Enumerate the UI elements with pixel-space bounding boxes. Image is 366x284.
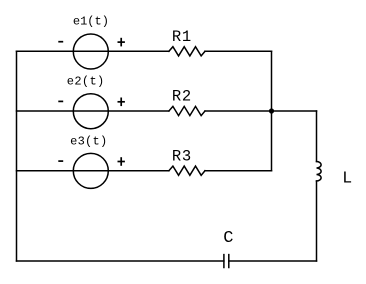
svg-text:e3(t): e3(t) xyxy=(70,134,107,148)
wire right inner vertical xyxy=(271,51,273,170)
label minus e1 xyxy=(58,41,63,43)
capacitor C plate left xyxy=(223,255,225,268)
wire row 2 left xyxy=(17,110,169,112)
wire row 2 right xyxy=(205,110,317,112)
capacitor C plate right xyxy=(228,255,230,268)
resistor R1 zigzag xyxy=(169,47,205,56)
voltage source e1 circle xyxy=(73,34,108,69)
resistor R2 zigzag xyxy=(169,106,205,115)
svg-text:C: C xyxy=(223,229,233,248)
svg-text:R3: R3 xyxy=(172,147,191,165)
wire far right vertical upper xyxy=(316,111,318,162)
wire bottom right segment xyxy=(229,260,317,262)
svg-text:R1: R1 xyxy=(172,28,191,46)
label plus e1 xyxy=(118,41,125,43)
wire row 1 left xyxy=(17,50,169,52)
svg-text:L: L xyxy=(342,168,352,187)
wire bottom left segment xyxy=(17,260,224,262)
label minus e3 xyxy=(58,160,63,162)
svg-text:e2(t): e2(t) xyxy=(67,74,104,88)
inductor L coil xyxy=(317,162,322,182)
wire row 3 left xyxy=(17,170,169,172)
wire row 1 right xyxy=(205,50,272,52)
node junction dot at R2/L net xyxy=(269,108,274,113)
label plus e2 xyxy=(118,101,125,103)
resistor R3 zigzag xyxy=(169,166,205,175)
voltage source e3 circle xyxy=(73,153,108,188)
label minus e2 xyxy=(58,100,63,102)
voltage source e2 circle xyxy=(73,94,108,129)
svg-text:e1(t): e1(t) xyxy=(73,14,109,28)
svg-text:R2: R2 xyxy=(172,88,191,106)
wire row 3 right xyxy=(205,170,272,172)
label plus e3 xyxy=(118,161,125,163)
wire far right vertical lower xyxy=(316,181,318,261)
wire left vertical bus xyxy=(16,51,18,261)
